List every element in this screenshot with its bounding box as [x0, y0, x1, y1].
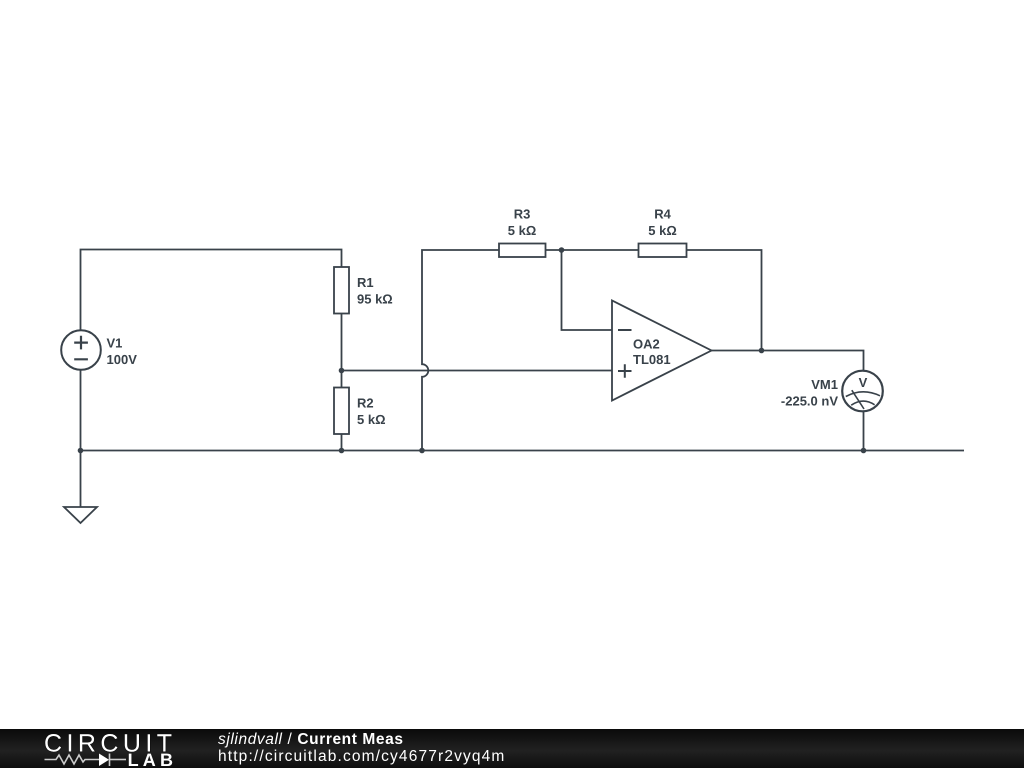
wire: divider tap node to op-amp + input [342, 370, 613, 372]
resistor R4 [639, 244, 687, 258]
wire: R2 bottom lead to ground rail [341, 434, 343, 451]
voltage source V1 [61, 330, 101, 370]
label R1 95 kΩ [357, 275, 393, 307]
resistor R1 [334, 267, 349, 314]
label R3 5 kΩ [508, 207, 537, 239]
wire: R3/R4 node down and to op-amp − input [562, 250, 613, 330]
wire: op-amp output across to VM1 top [712, 351, 864, 372]
CircuitLab logo [0, 729, 190, 768]
svg-text:5 kΩ: 5 kΩ [357, 412, 386, 427]
svg-text:LAB: LAB [128, 750, 178, 768]
junction dot: divider tap (R1/R2/+ input) [339, 368, 345, 374]
wire: VM1 bottom lead to ground rail [863, 412, 865, 451]
svg-text:R4: R4 [654, 207, 671, 222]
junction dot: VM1 bottom on ground rail [861, 448, 867, 454]
url: http://circuitlab.com/cy4677r2vyq4m [218, 749, 506, 764]
svg-text:VM1: VM1 [811, 377, 838, 392]
svg-text:V1: V1 [107, 336, 123, 351]
svg-text:R2: R2 [357, 396, 374, 411]
svg-text:-225.0 nV: -225.0 nV [781, 394, 838, 409]
svg-text:V: V [859, 375, 868, 390]
wire: R3 left branch (top corner, vertical with hop over + wire, to ground rail) [422, 250, 499, 451]
svg-text:R1: R1 [357, 275, 374, 290]
label R2 5 kΩ [357, 396, 386, 428]
wire: R3 right to R4 left [546, 249, 639, 251]
wire: V1 positive terminal up and across to R1 top [81, 250, 342, 331]
svg-text:5 kΩ: 5 kΩ [508, 223, 537, 238]
svg-text:OA2: OA2 [633, 337, 660, 352]
label OA2 TL081 [633, 337, 671, 368]
ground symbol [64, 507, 97, 523]
ground rail wire (bottom bus) [81, 450, 965, 452]
junction dot: R2 bottom on ground rail [339, 448, 345, 454]
wire: R4 right and down to output node [687, 250, 762, 351]
junction dot: R3/R4 feedback node [559, 247, 565, 253]
label R4 5 kΩ [648, 207, 677, 239]
junction dot: R3 branch on ground rail [419, 448, 425, 454]
resistor R2 [334, 388, 349, 435]
svg-text:TL081: TL081 [633, 352, 671, 367]
label V1 100V [107, 336, 138, 368]
junction dot: V1 negative on ground rail [78, 448, 84, 454]
label VM1 -225.0 nV [781, 377, 838, 409]
op-amp OA2 [612, 301, 712, 401]
resistor R3 [499, 244, 546, 258]
footer bar [0, 729, 1024, 768]
junction dot: op-amp output node [759, 348, 765, 354]
svg-text:5 kΩ: 5 kΩ [648, 223, 677, 238]
svg-text:100V: 100V [107, 352, 138, 367]
title: sjlindvall / Current Meas [218, 732, 404, 747]
voltmeter VM1 [842, 371, 883, 412]
wire: R1 bottom to R2 top [341, 314, 343, 388]
svg-text:95 kΩ: 95 kΩ [357, 292, 393, 307]
wire: V1 negative terminal down to ground rail [80, 370, 82, 451]
svg-text:R3: R3 [514, 207, 531, 222]
wire: ground stub below rail [80, 451, 82, 508]
